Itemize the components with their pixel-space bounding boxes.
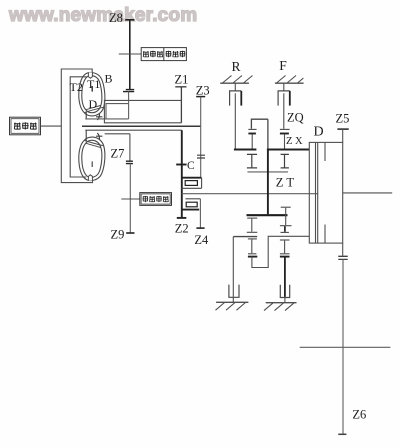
box engine 柴油机 (10, 117, 41, 135)
main axis shaft line (82, 125, 201, 127)
box pumps 变速泵/工作泵 (141, 48, 186, 61)
brake F caliper (278, 83, 290, 105)
svg-text:Z2: Z2 (175, 222, 189, 236)
freewheel hook top (85, 112, 87, 119)
wire outer frame (engine to pump wheels) (61, 69, 92, 183)
shaft Z2 end bar (177, 217, 187, 219)
axle cross line (300, 346, 391, 348)
idler gear column left (247, 154, 257, 168)
freewheel t-mark top (96, 114, 102, 120)
box D (range gearbox) (309, 142, 342, 243)
brake right lower caliper (280, 285, 289, 303)
brake R support with hatching (220, 76, 252, 84)
torque converter top (pump B, turbines T1 T2, stator D) (79, 72, 105, 115)
wire inner frame (turbine T2 link) (70, 77, 86, 177)
line to Z2 shaft (85, 129, 182, 131)
shaft Z2 thick vertical (181, 130, 183, 218)
text 柴油机 (14, 122, 37, 129)
lower gear column left (233, 218, 257, 257)
svg-text:Z4: Z4 (194, 233, 209, 247)
stator arc under D (84, 105, 104, 112)
shaft below D box (342, 243, 344, 256)
svg-text:www.newmaker.com: www.newmaker.com (8, 5, 197, 26)
shaft segment R to mid (234, 149, 257, 151)
text 变速泵 (143, 51, 163, 57)
brake R caliper (230, 83, 242, 105)
svg-text:D: D (314, 125, 324, 140)
svg-text:Z T: Z T (276, 176, 295, 190)
svg-text:T2: T2 (70, 80, 83, 94)
idler gear column right (281, 154, 289, 168)
shaft Z9 end bar (126, 232, 134, 234)
stator arc bottom (84, 140, 104, 147)
svg-text:T1: T1 (87, 77, 100, 91)
freewheel hook bottom (85, 130, 87, 141)
wire pump drive tap (119, 53, 141, 55)
svg-text:Z7: Z7 (111, 147, 125, 161)
brake F support with hatching (275, 76, 304, 84)
svg-text:Z X: Z X (286, 136, 303, 147)
shaft F vertical (283, 93, 285, 129)
text 转向泵等 (143, 196, 169, 202)
clutch drum bridge R (251, 119, 268, 149)
gear pair F column ZQ/ZX (280, 129, 290, 148)
svg-text:Z9: Z9 (111, 228, 125, 242)
clutch C drum bottom (mirror) (181, 199, 200, 210)
svg-text:Z8: Z8 (109, 11, 123, 25)
turbine T1 output tick (91, 86, 93, 92)
sleeve small rect (turbine output) (85, 104, 128, 119)
clutch C drum top (181, 178, 201, 189)
text 工作泵 (166, 51, 186, 57)
gear mesh Z7-Z9 (126, 161, 133, 163)
entry notch top egg (88, 72, 92, 78)
svg-text:D: D (89, 97, 98, 111)
shaft Z5 top (337, 129, 348, 142)
shaft Z6 end bar (338, 433, 346, 435)
shaft Z4 end bar (196, 227, 204, 229)
shaft Z3 (196, 97, 205, 177)
shaft Z1 (175, 87, 186, 123)
lay shaft line (247, 171, 288, 173)
box steering pump 转向泵等 (140, 193, 172, 206)
output line right (343, 192, 393, 194)
svg-text:Z5: Z5 (336, 112, 350, 126)
svg-text:ZQ: ZQ (287, 111, 304, 125)
shaft Z4 (199, 199, 201, 228)
shaft Z8 vertical with end bar (125, 20, 134, 89)
svg-text:F: F (279, 58, 287, 73)
shaft Z6 long (342, 259, 344, 434)
wire Z7 sleeve line (105, 134, 130, 161)
gear mesh Z5-Z6 (338, 256, 347, 259)
turbine tick bottom (91, 161, 93, 167)
torque converter bottom (mirror) (79, 137, 105, 180)
svg-text:R: R (232, 59, 241, 74)
gear mesh Z8-converter housing (123, 90, 134, 92)
wire mesh to sleeve (128, 92, 130, 104)
brake right lower shaft (284, 257, 286, 297)
entry notch bottom egg (88, 175, 92, 181)
wire engine to frame (41, 125, 62, 127)
brake left lower shaft (232, 237, 234, 297)
brake left lower caliper (229, 285, 239, 303)
freewheel t-mark bottom (96, 133, 102, 139)
svg-text:Z6: Z6 (352, 408, 366, 422)
long line C drum to D box (182, 193, 318, 195)
lower gear column right (280, 207, 292, 256)
svg-text:Z3: Z3 (196, 84, 210, 98)
shaft segment mid to D box (267, 149, 309, 151)
gear pair R drum (248, 129, 256, 148)
brake left lower support with hatching (216, 302, 249, 310)
hollow shaft big rect top (104, 100, 181, 122)
brake right lower support with hatching (264, 303, 297, 311)
gear ZT wide bar (247, 214, 288, 216)
svg-text:B: B (105, 72, 113, 86)
wire steering pump tap (121, 198, 140, 200)
gear pair on Z3 shaft (197, 155, 205, 158)
wire step to D box lower (252, 236, 309, 267)
shaft Z9 (129, 164, 131, 233)
svg-text:Z1: Z1 (175, 73, 189, 87)
shaft R vertical (234, 93, 236, 149)
gear on Z2 shaft at C (176, 164, 186, 166)
svg-text:C: C (187, 160, 195, 172)
shaft ZT vertical (267, 150, 269, 215)
